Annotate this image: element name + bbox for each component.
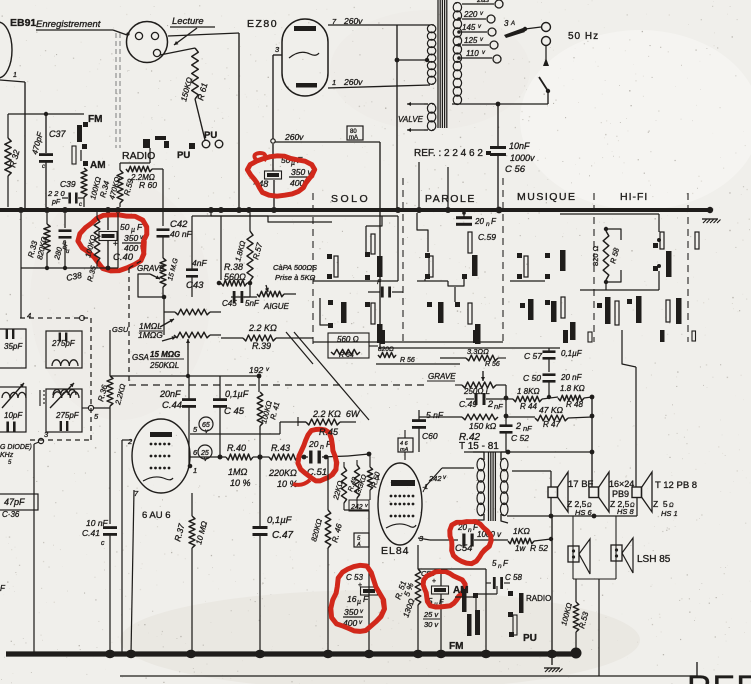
- capacitor C52: [500, 421, 533, 452]
- svg-text:2 2 0: 2 2 0: [47, 189, 66, 198]
- IF coil left tuned: [2, 383, 26, 408]
- svg-text:EL84: EL84: [381, 545, 410, 557]
- capacitor C42: [157, 219, 193, 258]
- wire primary top B+: [464, 451, 506, 453]
- resistor R35: [83, 212, 100, 283]
- resistor R50: [367, 454, 382, 500]
- svg-text:PU: PU: [177, 150, 190, 161]
- svg-text:n: n: [320, 444, 324, 451]
- resistor R33: [26, 213, 50, 268]
- valve winding arrows: [407, 102, 428, 132]
- svg-text:Lecture: Lecture: [172, 16, 204, 27]
- wire C43 top to bus wire: [191, 216, 193, 260]
- resistor R49 3.3K: [347, 460, 369, 507]
- capacitor C58: [486, 559, 522, 591]
- ground bus end junction: [571, 648, 582, 659]
- svg-text:T 15 - 81: T 15 - 81: [459, 441, 499, 452]
- svg-text:1KΩ: 1KΩ: [513, 526, 530, 536]
- svg-text:16: 16: [347, 594, 357, 604]
- svg-text:+: +: [358, 582, 362, 589]
- wire 192 to R41: [258, 376, 260, 392]
- wire thin rail below bus: [211, 216, 398, 281]
- resistor R45 2.2K 6W: [298, 409, 361, 437]
- output transformer secondary: [500, 452, 508, 523]
- svg-text:C45: C45: [222, 299, 237, 308]
- svg-text:pF: pF: [51, 199, 61, 206]
- dashed section separator x=594: [593, 193, 595, 342]
- dashed section separator x=403: [402, 178, 404, 342]
- svg-text:FM: FM: [449, 641, 463, 652]
- wire RADIO to C42: [162, 169, 164, 226]
- capacitor C56: [490, 104, 535, 207]
- wire C51 to node: [348, 452, 371, 457]
- svg-text:5: 5: [492, 559, 497, 568]
- svg-text:0,1µF: 0,1µF: [561, 349, 583, 358]
- primary tap 145v: [462, 23, 496, 36]
- junction on ground bus x=486: [481, 650, 491, 658]
- dashed IF box: [20, 318, 91, 440]
- svg-text:VALVE: VALVE: [398, 115, 424, 124]
- junction on ground bus x=110: [105, 650, 115, 658]
- switch FM: [72, 114, 102, 164]
- svg-text:AM: AM: [90, 160, 106, 171]
- dashed GSU line: [129, 261, 141, 385]
- label 50Hz: [568, 31, 599, 42]
- svg-text:5nF: 5nF: [245, 299, 260, 308]
- svg-text:c: c: [101, 540, 105, 547]
- junction on ground bus x=328: [323, 650, 333, 658]
- wire 260v to meter: [275, 141, 380, 143]
- svg-text:C37: C37: [49, 129, 67, 139]
- svg-text:47 KΩ: 47 KΩ: [539, 405, 563, 415]
- label GSA: [132, 350, 184, 370]
- svg-text:c: c: [79, 202, 82, 208]
- svg-text:C.40: C.40: [113, 252, 134, 263]
- box 5A: [354, 533, 369, 548]
- transformer core: [438, 0, 447, 128]
- label SOLO: [331, 193, 370, 205]
- junction on HT bus x=239: [236, 207, 242, 213]
- svg-text:nF: nF: [494, 402, 503, 411]
- svg-text:C.59: C.59: [478, 232, 496, 242]
- wire C58 drop: [441, 569, 486, 654]
- svg-text:192: 192: [249, 365, 263, 375]
- capacitor C51: [302, 439, 348, 478]
- wire pu links: [478, 586, 513, 615]
- transformer secondary HT winding: [427, 25, 435, 85]
- svg-text:R 44: R 44: [520, 402, 537, 411]
- pin 3 circle: [38, 430, 49, 444]
- svg-text:c: c: [42, 164, 45, 170]
- speaker T12PB8 HS1: [632, 472, 697, 518]
- switch AM top-left: [81, 150, 106, 171]
- resistor R55: [378, 346, 415, 364]
- svg-text:C 45: C 45: [224, 406, 245, 417]
- resistor R56 3.3: [440, 347, 506, 368]
- svg-text:110: 110: [466, 49, 479, 58]
- fuse 3A: [504, 19, 541, 38]
- resistor R46: [309, 457, 344, 654]
- wire x118 below bus: [45, 213, 118, 270]
- tube EB91 (partial at edge): [0, 22, 12, 78]
- svg-text:C54: C54: [455, 543, 472, 554]
- svg-text:1MΩG: 1MΩG: [138, 330, 163, 340]
- svg-text:HI-FI: HI-FI: [620, 191, 648, 203]
- svg-text:1: 1: [13, 72, 17, 79]
- tube 6AU6: [132, 419, 190, 493]
- wire volume pots left: [163, 297, 165, 335]
- IF coil right tuned: [40, 383, 79, 408]
- dashed section separator x=313: [312, 193, 314, 345]
- junction on ground bus x=418: [413, 650, 423, 658]
- red circle around C53: [331, 565, 385, 631]
- resistor R41: [257, 392, 281, 430]
- svg-text:A: A: [356, 542, 361, 548]
- primary tap 220v: [462, 10, 495, 23]
- resistor R53: [559, 579, 590, 652]
- label LSH85: [637, 554, 671, 565]
- bottom ground bus: [6, 651, 576, 656]
- label 242v box: [349, 500, 369, 511]
- wire bank row y342: [313, 342, 560, 348]
- svg-text:GRAVE: GRAVE: [428, 372, 456, 381]
- wire R38 to bus: [220, 216, 222, 280]
- node x506 3: [506, 450, 592, 455]
- svg-text:3: 3: [504, 19, 509, 28]
- DIN connector socket: [126, 22, 167, 63]
- svg-text:6 AU 6: 6 AU 6: [142, 510, 171, 521]
- resistor 22K: [331, 462, 347, 510]
- wire hifi feed: [560, 214, 661, 268]
- node below grave: [162, 287, 167, 299]
- svg-text:RADIO: RADIO: [526, 594, 551, 603]
- resistor R43: [253, 443, 304, 489]
- label PU bottom: [523, 633, 537, 644]
- svg-text:GSU: GSU: [112, 325, 129, 334]
- label 150KOhm R61: [179, 76, 209, 102]
- svg-text:50: 50: [120, 222, 130, 232]
- svg-text:25 v: 25 v: [423, 610, 439, 619]
- svg-text:G DIODE): G DIODE): [0, 444, 32, 451]
- node mains to C56: [496, 102, 501, 107]
- wire 192v rail: [110, 365, 270, 378]
- svg-text:1w: 1w: [515, 544, 526, 553]
- wire hifi bottom link: [580, 271, 659, 290]
- svg-text:145: 145: [462, 23, 476, 32]
- svg-text:REF.T: REF.T: [687, 669, 751, 684]
- svg-text:+: +: [113, 239, 118, 248]
- resistor R61: [160, 48, 205, 140]
- capacitor C36 box: [0, 494, 38, 519]
- svg-text:R 52: R 52: [530, 543, 548, 553]
- svg-text:0,1µF: 0,1µF: [225, 389, 249, 399]
- label GSU: [112, 325, 129, 334]
- capacitor C43 4nF: [186, 258, 207, 297]
- junction on HT bus x=274: [271, 207, 277, 213]
- svg-text:MUSIQUE: MUSIQUE: [517, 191, 577, 203]
- switch RADIO bottom: [519, 593, 551, 613]
- dashed section separator x=503: [502, 178, 504, 342]
- svg-text:10pF: 10pF: [4, 411, 23, 420]
- capacitor C40 electrolytic: [99, 210, 144, 266]
- wire EL84 pin3: [418, 538, 430, 545]
- wire 6AU6 grid3: [122, 440, 132, 654]
- label MUSIQUE: [517, 191, 577, 203]
- switch RADIO contacts: [120, 136, 169, 163]
- svg-text:35pF: 35pF: [4, 342, 23, 351]
- wire SOLO row2 links: [313, 298, 330, 330]
- svg-text:C 58: C 58: [505, 573, 522, 582]
- capacitor 48uF electrolytic: [253, 144, 313, 207]
- primary tap 110v: [462, 49, 501, 63]
- junction on HT bus x=398: [395, 207, 401, 213]
- svg-text:20: 20: [308, 439, 319, 449]
- wire B+ down to amplifier: [379, 142, 381, 348]
- svg-text:PU: PU: [204, 130, 217, 141]
- svg-text:mA: mA: [349, 135, 358, 141]
- capacitor C50: [523, 373, 583, 397]
- resistor R58 820: [591, 227, 621, 284]
- switch contacts MUSIQUE row1: [517, 250, 566, 279]
- junction on HT bus x=448: [445, 207, 451, 213]
- label PU left: [177, 150, 190, 161]
- dashed line y385: [129, 384, 425, 386]
- svg-text:PAROLE: PAROLE: [425, 193, 476, 205]
- tweeter speaker 1: [568, 539, 590, 574]
- svg-text:C 56: C 56: [505, 164, 526, 175]
- svg-text:2.2 KΩ: 2.2 KΩ: [248, 323, 277, 333]
- svg-text:µ: µ: [357, 599, 361, 606]
- pin 5 circle: [82, 405, 110, 421]
- label 1MOhm G: [138, 330, 176, 341]
- junction on ground bus x=441: [436, 650, 446, 658]
- PU jack sockets: [202, 130, 223, 148]
- speaker PB9 HS8: [589, 472, 635, 516]
- node C40 bottom: [106, 266, 111, 271]
- resistor R52: [508, 526, 553, 553]
- wire y364 row: [376, 363, 460, 365]
- HT bus end junction: [707, 207, 713, 213]
- svg-text:2: 2: [127, 437, 133, 446]
- HT bus (SOLO/PAROLE/MUSIQUE/HI-FI rail): [0, 208, 710, 212]
- svg-text:mA: mA: [400, 447, 409, 453]
- svg-text:F: F: [363, 594, 369, 604]
- wire 22K bottoms: [344, 509, 369, 511]
- svg-text:KHz: KHz: [0, 452, 14, 459]
- junction on ground bus x=191: [186, 650, 196, 658]
- wire speaker common: [507, 497, 637, 654]
- svg-text:17 BF: 17 BF: [568, 479, 594, 490]
- red circle around C54: [450, 522, 491, 564]
- switch contacts MUSIQUE row2: [520, 297, 576, 340]
- junction on ground bus x=260: [255, 650, 265, 658]
- junction on HT bus x=47: [44, 207, 50, 213]
- arrow Lecture to connector: [174, 28, 197, 45]
- resistor R34: [81, 168, 122, 207]
- transformer valve winding: [427, 103, 435, 130]
- wire left column: [20, 213, 22, 318]
- label G DIODE: [0, 444, 32, 466]
- label EL84: [381, 545, 410, 557]
- label pin4: [27, 311, 85, 321]
- resistor R59: [117, 163, 135, 207]
- svg-text:65: 65: [202, 422, 210, 429]
- svg-text:R.39: R.39: [252, 341, 271, 351]
- capacitor C45: [213, 376, 249, 460]
- capacitor 10pF: [0, 387, 26, 433]
- junction on HT bus x=21: [18, 207, 24, 213]
- wire heater drop 2: [447, 167, 449, 207]
- svg-text:350: 350: [124, 233, 138, 243]
- red circle around C51: [293, 429, 337, 485]
- svg-text:260v: 260v: [284, 132, 304, 142]
- svg-text:30 v: 30 v: [424, 620, 439, 629]
- mains switch arm: [539, 45, 550, 93]
- svg-text:220KΩ: 220KΩ: [268, 468, 297, 478]
- resistor R51: [393, 545, 420, 654]
- wire EL84 plate: [422, 468, 474, 494]
- label 1MOhm L: [139, 319, 174, 331]
- resistor R37: [172, 493, 209, 654]
- svg-text:C.44: C.44: [162, 400, 182, 411]
- svg-text:50 Hz: 50 Hz: [568, 31, 599, 42]
- capacitor 5nF aigue: [222, 283, 260, 308]
- contact near PU: [189, 143, 195, 149]
- wire 6AU6 cathode: [131, 490, 134, 654]
- capacitor C49: [459, 385, 506, 411]
- svg-text:1: 1: [332, 78, 336, 87]
- wire right frame: [598, 516, 600, 676]
- wire FM row: [8, 113, 84, 115]
- pot volume L: [164, 309, 221, 315]
- pot volume G: [174, 332, 221, 376]
- svg-text:242: 242: [428, 474, 442, 483]
- tube EZ80: [282, 19, 328, 96]
- capacitor C60: [412, 410, 462, 452]
- resistor R60: [126, 166, 163, 190]
- capacitor C54: [430, 523, 508, 554]
- resistor R64 560 box: [328, 333, 378, 359]
- junction on ground bus x=369: [364, 650, 374, 658]
- svg-text:350: 350: [344, 607, 358, 617]
- switch contacts SOLO row2: [328, 300, 383, 343]
- wire SOLO row1 links: [313, 216, 398, 281]
- speaker 17BF HS6: [548, 472, 594, 517]
- svg-text:2.2 KΩ 6W: 2.2 KΩ 6W: [312, 409, 361, 419]
- svg-text:C.47: C.47: [272, 530, 294, 541]
- svg-text:C60: C60: [422, 431, 438, 441]
- svg-text:C 53: C 53: [346, 573, 363, 582]
- wire thin below bus: [192, 213, 332, 222]
- junction on HT bus x=419: [416, 207, 422, 213]
- output transformer T15-81 primary: [473, 452, 485, 520]
- svg-text:150 kΩ: 150 kΩ: [469, 421, 497, 431]
- svg-text:2as: 2as: [476, 0, 489, 4]
- tube pin labels: [127, 425, 198, 498]
- svg-text:C 57: C 57: [524, 351, 542, 361]
- resistor R39 2.2K: [221, 323, 313, 351]
- wire connector to x239: [168, 33, 239, 207]
- svg-text:1000v: 1000v: [510, 153, 535, 163]
- junction on HT bus x=108: [105, 207, 111, 213]
- svg-text:CàPA 500ΩS: CàPA 500ΩS: [273, 263, 317, 272]
- label RADIO top: [122, 150, 155, 162]
- wire 6AU6 plate: [190, 422, 306, 434]
- junction on HT bus x=221: [218, 207, 224, 213]
- svg-text:R 48: R 48: [566, 400, 583, 409]
- svg-text:2: 2: [515, 421, 521, 431]
- red circle around C55: [423, 571, 465, 607]
- primary tap 125v: [462, 36, 498, 49]
- svg-text:HS 1: HS 1: [661, 509, 678, 518]
- switch stray contacts row3: [380, 330, 696, 344]
- label PAROLE: [425, 193, 476, 205]
- svg-text:LSH 85: LSH 85: [637, 554, 671, 565]
- svg-text:R.45: R.45: [319, 427, 339, 437]
- IF can lower 275pF: [46, 389, 82, 432]
- svg-text:R 56: R 56: [400, 357, 415, 364]
- svg-text:820Ω: 820Ω: [378, 346, 394, 353]
- capacitor 20nF solo-parole: [368, 279, 403, 298]
- svg-text:16×24: 16×24: [609, 479, 634, 489]
- svg-text:47pF: 47pF: [4, 497, 25, 507]
- svg-text:R 60: R 60: [139, 180, 157, 190]
- svg-text:R.40: R.40: [227, 443, 246, 453]
- junction on HT bus x=211: [208, 207, 214, 213]
- meter 80mA: [347, 126, 363, 141]
- dashed section separator x=688: [687, 193, 689, 342]
- primary tap 245: [462, 0, 503, 8]
- mains switch terminals: [542, 23, 551, 46]
- svg-text:C.49: C.49: [459, 399, 477, 409]
- wire grave wiper loop: [138, 274, 163, 297]
- tube EL84: [378, 463, 422, 545]
- ground at HT bus right end: [702, 219, 721, 223]
- resistor R38: [217, 262, 250, 286]
- svg-text:4: 4: [27, 311, 31, 320]
- capacitor 35pF: [0, 329, 26, 368]
- svg-text:250KΩL: 250KΩL: [149, 361, 179, 370]
- svg-text:C.41: C.41: [82, 528, 100, 538]
- tweeter box frame: [573, 516, 616, 579]
- wire 242 line down: [368, 511, 370, 654]
- tweeter speaker 2: [611, 538, 633, 573]
- svg-text:R.38: R.38: [224, 262, 243, 272]
- label VALVE: [398, 115, 424, 124]
- junction on HT bus x=65: [62, 207, 68, 213]
- resistor R57: [233, 213, 264, 285]
- capacitor C57: [524, 348, 583, 372]
- svg-text:125: 125: [464, 36, 478, 45]
- svg-text:260v: 260v: [343, 16, 363, 26]
- pot AIGUE: [244, 285, 296, 311]
- wire tube pin1: [0, 72, 25, 208]
- svg-text:C39: C39: [60, 179, 76, 189]
- svg-text:C 52: C 52: [511, 433, 529, 443]
- svg-text:1MΩ: 1MΩ: [228, 467, 248, 477]
- label HI-FI: [620, 191, 648, 203]
- bottom frame line: [120, 662, 697, 676]
- box 46mA: [398, 430, 413, 460]
- wire to speakers: [590, 330, 636, 487]
- wire PAROLE row1 links: [417, 213, 464, 286]
- svg-text:R.43: R.43: [271, 443, 290, 453]
- svg-text:275pF: 275pF: [55, 411, 80, 420]
- circled 65v: [199, 417, 213, 435]
- svg-text:275pF: 275pF: [51, 339, 76, 348]
- svg-text:Enregistrement: Enregistrement: [36, 19, 101, 30]
- svg-text:C43: C43: [186, 280, 204, 291]
